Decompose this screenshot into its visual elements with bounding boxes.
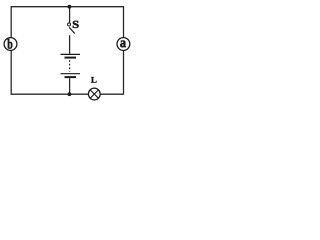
switch S bbox=[68, 23, 75, 34]
meter a bbox=[117, 38, 130, 51]
wire bbox=[69, 35, 71, 54]
label L bbox=[91, 77, 97, 83]
lamp L bbox=[88, 88, 100, 100]
node (top junction) bbox=[68, 5, 72, 9]
wire bbox=[11, 7, 123, 95]
label S bbox=[73, 21, 79, 28]
wire bbox=[69, 78, 71, 94]
meter b bbox=[4, 38, 17, 51]
wire bbox=[69, 7, 71, 23]
battery B1 bbox=[61, 54, 81, 77]
node (bottom junction) bbox=[68, 92, 72, 96]
label b bbox=[7, 39, 12, 49]
label a bbox=[120, 40, 126, 47]
